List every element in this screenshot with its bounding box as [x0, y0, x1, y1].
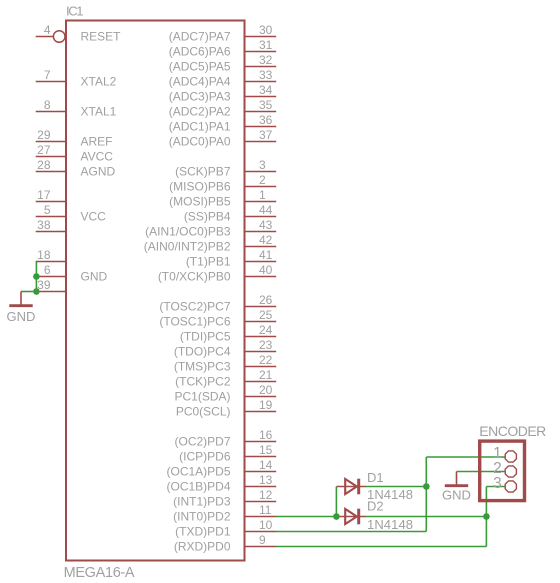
- svg-text:(MISO)PB6: (MISO)PB6: [169, 179, 231, 193]
- pin 10 ((TXD)PD1) of IC1, right side: [175, 518, 276, 538]
- svg-text:GND: GND: [7, 309, 36, 324]
- diode D1 (1N4148): [336, 470, 413, 502]
- svg-text:24: 24: [259, 323, 273, 337]
- pin 39 (NC) of IC1, left side: [36, 278, 66, 292]
- svg-text:AGND: AGND: [81, 164, 116, 178]
- ground symbol GND (right, encoder pin 2): [442, 472, 471, 503]
- svg-text:25: 25: [259, 308, 273, 322]
- svg-text:8: 8: [44, 98, 51, 112]
- wire GND net: to ground symbol: [21, 291, 36, 293]
- svg-text:33: 33: [259, 68, 273, 82]
- pin 40 ((T0/XCK)PB0) of IC1, right side: [158, 263, 276, 283]
- pin 21 ((TCK)PC2) of IC1, right side: [175, 368, 276, 388]
- pad 3 of ENCODER: [493, 475, 516, 492]
- svg-text:(AIN1/OC0)PB3: (AIN1/OC0)PB3: [145, 224, 231, 238]
- svg-text:(TDO)PC4: (TDO)PC4: [174, 344, 231, 358]
- svg-text:(T0/XCK)PB0: (T0/XCK)PB0: [158, 269, 231, 283]
- pin 25 ((TOSC1)PC6) of IC1, right side: [159, 308, 276, 328]
- svg-text:AREF: AREF: [81, 134, 113, 148]
- wire ENCODER pin 2 to ground: [457, 471, 506, 473]
- pin 12 ((INT1)PD3) of IC1, right side: [173, 488, 276, 508]
- svg-text:36: 36: [259, 113, 273, 127]
- wire net from pin 11 (INT0)PD2 to diode anodes: [276, 516, 336, 518]
- svg-text:5: 5: [44, 203, 51, 217]
- svg-text:1: 1: [259, 188, 266, 202]
- svg-text:D1: D1: [367, 470, 384, 485]
- junction at pin 39 (GND net): [33, 288, 40, 295]
- pin 11 ((INT0)PD2) of IC1, right side: [173, 503, 276, 523]
- svg-text:(ADC6)PA6: (ADC6)PA6: [169, 44, 231, 58]
- svg-text:13: 13: [259, 473, 273, 487]
- svg-text:(RXD)PD0: (RXD)PD0: [174, 539, 231, 553]
- svg-text:12: 12: [259, 488, 273, 502]
- svg-text:(ADC4)PA4: (ADC4)PA4: [169, 74, 231, 88]
- svg-text:2: 2: [259, 173, 266, 187]
- svg-text:31: 31: [259, 38, 273, 52]
- svg-text:29: 29: [37, 128, 51, 142]
- svg-text:20: 20: [259, 383, 273, 397]
- svg-text:3: 3: [493, 475, 502, 492]
- svg-text:(INT1)PD3: (INT1)PD3: [173, 494, 231, 508]
- svg-text:(ADC5)PA5: (ADC5)PA5: [169, 59, 231, 73]
- svg-text:28: 28: [37, 158, 51, 172]
- svg-text:42: 42: [259, 233, 273, 247]
- svg-text:(TCK)PC2: (TCK)PC2: [175, 374, 231, 388]
- pin 26 ((TOSC2)PC7) of IC1, right side: [159, 293, 276, 313]
- svg-text:40: 40: [259, 263, 273, 277]
- pin 34 ((ADC3)PA3) of IC1, right side: [169, 83, 276, 103]
- svg-text:(AIN0/INT2)PB2: (AIN0/INT2)PB2: [144, 239, 231, 253]
- svg-text:37: 37: [259, 128, 273, 142]
- pin 8 (XTAL1) of IC1, left side: [36, 98, 117, 118]
- pin 20 (PC1(SDA)) of IC1, right side: [174, 383, 276, 403]
- svg-text:38: 38: [37, 218, 51, 232]
- svg-text:22: 22: [259, 353, 273, 367]
- pin 1 ((MOSI)PB5) of IC1, right side: [169, 188, 276, 208]
- wire D2 cathode to junction: [366, 516, 486, 518]
- svg-text:RESET: RESET: [81, 29, 122, 43]
- svg-text:32: 32: [259, 53, 273, 67]
- wire D1 cathode to junction: [366, 486, 426, 488]
- svg-text:3: 3: [259, 158, 266, 172]
- pin 29 (AREF) of IC1, left side: [36, 128, 113, 148]
- pin 23 ((TDO)PC4) of IC1, right side: [174, 338, 276, 358]
- svg-text:27: 27: [37, 143, 51, 157]
- svg-text:(OC2)PD7: (OC2)PD7: [174, 434, 230, 448]
- svg-text:1N4148: 1N4148: [367, 517, 413, 532]
- svg-text:41: 41: [259, 248, 273, 262]
- pin 30 ((ADC7)PA7) of IC1, right side: [169, 23, 276, 43]
- svg-text:(TXD)PD1: (TXD)PD1: [175, 524, 231, 538]
- wire D1 anode drop: [335, 487, 337, 517]
- wire to ENCODER pin 1: [426, 456, 505, 458]
- svg-text:(INT0)PD2: (INT0)PD2: [173, 509, 231, 523]
- junction at D1 cathode net: [423, 483, 430, 490]
- svg-text:18: 18: [37, 248, 51, 262]
- svg-text:6: 6: [44, 263, 51, 277]
- svg-text:34: 34: [259, 83, 273, 97]
- pin 22 ((TMS)PC3) of IC1, right side: [174, 353, 276, 373]
- svg-text:(TDI)PC5: (TDI)PC5: [180, 329, 231, 343]
- svg-text:GND: GND: [442, 488, 471, 503]
- pin 6 (GND) of IC1, left side: [36, 263, 108, 283]
- wire junction down to TXD wire / up to encoder pin 1: [425, 457, 427, 532]
- svg-text:(ADC3)PA3: (ADC3)PA3: [169, 89, 231, 103]
- pin 28 (AGND) of IC1, left side: [36, 158, 116, 178]
- svg-text:(ADC7)PA7: (ADC7)PA7: [169, 29, 231, 43]
- pin 36 ((ADC1)PA1) of IC1, right side: [169, 113, 276, 133]
- svg-text:35: 35: [259, 98, 273, 112]
- svg-text:(ADC2)PA2: (ADC2)PA2: [169, 104, 231, 118]
- svg-text:15: 15: [259, 443, 273, 457]
- svg-text:(ADC1)PA1: (ADC1)PA1: [169, 119, 231, 133]
- svg-text:14: 14: [259, 458, 273, 472]
- svg-text:21: 21: [259, 368, 273, 382]
- svg-text:PC1(SDA): PC1(SDA): [174, 389, 230, 403]
- pin 41 ((T1)PB1) of IC1, right side: [186, 248, 276, 268]
- diode D2 (1N4148): [336, 499, 413, 533]
- wire net from pin 10 (TXD)PD1: [276, 531, 426, 533]
- IC IC1 body (MEGA16-A): [66, 21, 245, 561]
- pad 2 of ENCODER: [493, 460, 516, 477]
- pin 35 ((ADC2)PA2) of IC1, right side: [169, 98, 276, 118]
- svg-text:11: 11: [259, 503, 272, 517]
- svg-text:(ICP)PD6: (ICP)PD6: [179, 449, 231, 463]
- svg-text:(TOSC1)PC6: (TOSC1)PC6: [159, 314, 230, 328]
- svg-text:XTAL2: XTAL2: [81, 74, 117, 88]
- svg-text:XTAL1: XTAL1: [81, 104, 117, 118]
- pin 42 ((AIN0/INT2)PB2) of IC1, right side: [144, 233, 276, 253]
- svg-text:43: 43: [259, 218, 273, 232]
- svg-text:(OC1B)PD4: (OC1B)PD4: [166, 479, 230, 493]
- pin 31 ((ADC6)PA6) of IC1, right side: [169, 38, 276, 58]
- svg-text:(ADC0)PA0: (ADC0)PA0: [169, 134, 231, 148]
- svg-text:39: 39: [37, 278, 51, 292]
- svg-text:10: 10: [259, 518, 273, 532]
- pin 5 (VCC) of IC1, left side: [36, 203, 106, 223]
- pin 14 ((OC1A)PD5) of IC1, right side: [166, 458, 276, 478]
- connector ENCODER body: [480, 441, 525, 501]
- pin 44 ((SS)PB4) of IC1, right side: [184, 203, 276, 223]
- svg-text:IC1: IC1: [66, 4, 84, 19]
- svg-text:(SCK)PB7: (SCK)PB7: [175, 164, 231, 178]
- wire junction up to encoder pin 3 / down to RXD wire: [485, 487, 487, 547]
- wire net from pin 9 (RXD)PD0: [276, 546, 486, 548]
- svg-text:4: 4: [44, 23, 51, 37]
- pin 3 ((SCK)PB7) of IC1, right side: [175, 158, 276, 178]
- pin 19 (PC0(SCL)) of IC1, right side: [176, 398, 276, 418]
- pin 4 inversion bubble: [53, 31, 65, 43]
- svg-text:MEGA16-A: MEGA16-A: [64, 565, 135, 581]
- svg-text:23: 23: [259, 338, 273, 352]
- svg-text:7: 7: [44, 68, 51, 82]
- ground symbol GND (left): [7, 292, 36, 325]
- svg-text:AVCC: AVCC: [81, 149, 114, 163]
- pin 15 ((ICP)PD6) of IC1, right side: [179, 443, 276, 463]
- pad 1 of ENCODER: [493, 445, 516, 462]
- svg-text:PC0(SCL): PC0(SCL): [176, 404, 231, 418]
- pin 17 (NC) of IC1, left side: [36, 188, 66, 202]
- svg-text:GND: GND: [81, 269, 108, 283]
- svg-text:19: 19: [259, 398, 273, 412]
- junction at D2 cathode net: [483, 513, 490, 520]
- wire to ENCODER pin 3: [486, 486, 505, 488]
- svg-text:(TOSC2)PC7: (TOSC2)PC7: [159, 299, 230, 313]
- svg-text:17: 17: [37, 188, 51, 202]
- svg-text:ENCODER: ENCODER: [479, 423, 546, 439]
- pin 9 ((RXD)PD0) of IC1, right side: [174, 533, 276, 553]
- svg-text:(T1)PB1: (T1)PB1: [186, 254, 231, 268]
- svg-text:(TMS)PC3: (TMS)PC3: [174, 359, 231, 373]
- pin 33 ((ADC4)PA4) of IC1, right side: [169, 68, 276, 88]
- pin 43 ((AIN1/OC0)PB3) of IC1, right side: [145, 218, 276, 238]
- pin 7 (XTAL2) of IC1, left side: [36, 68, 117, 88]
- pin 2 ((MISO)PB6) of IC1, right side: [169, 173, 276, 193]
- pin 24 ((TDI)PC5) of IC1, right side: [180, 323, 276, 343]
- svg-text:(OC1A)PD5: (OC1A)PD5: [166, 464, 230, 478]
- svg-text:26: 26: [259, 293, 273, 307]
- svg-text:44: 44: [259, 203, 273, 217]
- pin 37 ((ADC0)PA0) of IC1, right side: [169, 128, 276, 148]
- pin 4 (RESET) of IC1, left side: [36, 23, 121, 43]
- svg-text:9: 9: [259, 533, 266, 547]
- svg-text:(SS)PB4: (SS)PB4: [184, 209, 231, 223]
- svg-text:16: 16: [259, 428, 273, 442]
- pin 38 (NC) of IC1, left side: [36, 218, 66, 232]
- svg-text:VCC: VCC: [81, 209, 107, 223]
- pin 18 (NC) of IC1, left side: [36, 248, 66, 262]
- pin 27 (AVCC) of IC1, left side: [36, 143, 114, 163]
- pin 16 ((OC2)PD7) of IC1, right side: [174, 428, 276, 448]
- pin 32 ((ADC5)PA5) of IC1, right side: [169, 53, 276, 73]
- pin 13 ((OC1B)PD4) of IC1, right side: [166, 473, 276, 493]
- junction at D1/D2 anodes: [333, 513, 340, 520]
- wire GND net: pin 18 down to pin 39: [35, 262, 37, 292]
- svg-text:(MOSI)PB5: (MOSI)PB5: [169, 194, 231, 208]
- junction at pin 6 (GND net): [33, 273, 40, 280]
- svg-text:30: 30: [259, 23, 273, 37]
- svg-text:D2: D2: [367, 499, 384, 514]
